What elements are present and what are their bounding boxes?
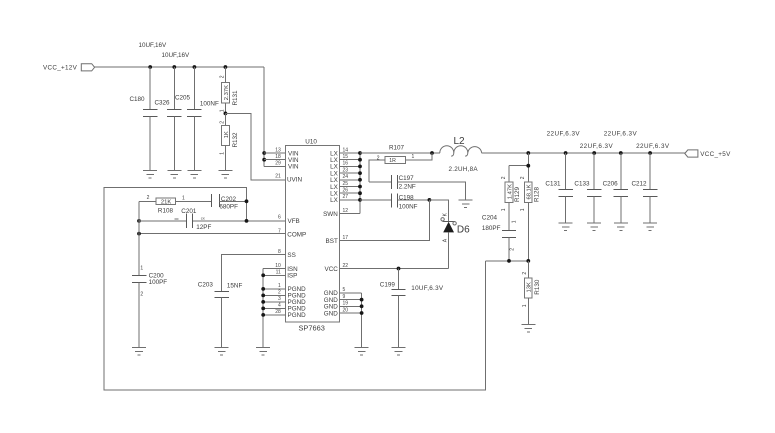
svg-text:COMP: COMP <box>287 231 306 238</box>
node C198-BST junction <box>428 198 432 202</box>
svg-text:GND: GND <box>324 310 338 317</box>
svg-text:1: 1 <box>522 304 528 307</box>
svg-text:2.2NF: 2.2NF <box>399 184 416 191</box>
svg-text:R132: R132 <box>232 132 239 148</box>
svg-text:2: 2 <box>147 195 150 201</box>
svg-text:R130: R130 <box>534 279 541 295</box>
svg-text:C212: C212 <box>632 181 648 188</box>
ground C326 <box>167 171 181 179</box>
svg-text:20: 20 <box>343 307 349 313</box>
svg-text:9: 9 <box>343 294 346 300</box>
svg-text:C198: C198 <box>399 194 415 201</box>
pin LX 26 <box>330 188 348 198</box>
node C204 bottom junction <box>507 259 511 263</box>
svg-text:6: 6 <box>278 215 281 221</box>
wire VFB pin <box>193 220 286 222</box>
svg-text:C133: C133 <box>574 181 590 188</box>
svg-text:VCC: VCC <box>325 266 339 273</box>
pin SS 8 <box>278 249 296 259</box>
pin VFB 6 <box>278 215 300 226</box>
node rail-divider junction <box>526 151 530 155</box>
svg-text:C197: C197 <box>399 175 415 182</box>
capacitor C131 <box>545 153 572 223</box>
pin GND 9 <box>324 294 346 304</box>
pin PGND 2 <box>278 290 306 300</box>
pin VIN 29 <box>275 161 299 171</box>
svg-text:1: 1 <box>182 195 185 201</box>
svg-text:2: 2 <box>140 292 143 298</box>
svg-text:1R: 1R <box>389 158 396 164</box>
port VCC_+5V <box>685 150 731 158</box>
svg-text:2.2UH,8A: 2.2UH,8A <box>449 166 479 173</box>
ground C205 <box>187 171 201 179</box>
wire feedback loop <box>104 187 485 390</box>
pin GND 20 <box>324 307 348 317</box>
svg-text:1K: 1K <box>224 131 230 138</box>
pin LX 24 <box>330 174 348 184</box>
capacitor C326 <box>155 67 182 171</box>
capacitor C212 <box>632 153 658 223</box>
pin ISP 11 <box>276 270 298 280</box>
pin LX 15 <box>330 154 348 164</box>
svg-text:1: 1 <box>278 283 281 289</box>
svg-text:21K: 21K <box>161 200 171 206</box>
svg-text:12: 12 <box>343 208 349 214</box>
svg-text:11: 11 <box>276 270 281 276</box>
node rail-C326 <box>172 65 176 69</box>
pin ISN 10 <box>275 263 298 273</box>
svg-text:68.1K: 68.1K <box>527 184 533 199</box>
wire LX stubs and bus <box>340 153 360 214</box>
wire R108 branch vertical <box>138 201 140 275</box>
node VCC-C199 junction <box>397 267 401 271</box>
node VFB-loop junction <box>245 219 249 223</box>
node VIN pin18 <box>262 158 266 162</box>
wire VCC pin <box>340 268 449 270</box>
svg-text:100NF: 100NF <box>399 203 418 210</box>
node rail-C206 <box>619 151 623 155</box>
svg-text:C205: C205 <box>175 94 191 101</box>
resistor R128 68.1K <box>520 176 540 261</box>
ground C203 <box>215 348 229 356</box>
ground R132 <box>218 170 232 178</box>
svg-text:22UF,6.3V: 22UF,6.3V <box>580 143 614 150</box>
wire PGND stubs <box>263 289 285 315</box>
ground PGND <box>256 348 270 356</box>
capacitor C199 10UF,6.3V <box>380 269 444 348</box>
svg-text:1: 1 <box>412 154 415 160</box>
capacitor C133 <box>574 153 601 223</box>
pin BST 17 <box>326 235 349 245</box>
svg-text:28: 28 <box>275 309 281 315</box>
pin LX 23 <box>330 167 348 177</box>
pin PGND 28 <box>275 309 306 319</box>
svg-text:C204: C204 <box>482 215 498 222</box>
resistor R131 2.37K <box>219 67 239 113</box>
pin GND 19 <box>324 301 348 311</box>
svg-text:2: 2 <box>522 272 528 275</box>
node VIN pin13 <box>262 151 266 155</box>
svg-text:8: 8 <box>278 249 281 255</box>
svg-text:2: 2 <box>520 176 526 179</box>
svg-text:2: 2 <box>219 121 225 124</box>
svg-text:100PF: 100PF <box>149 279 168 286</box>
svg-text:13K: 13K <box>527 282 533 292</box>
svg-text:C180: C180 <box>130 96 146 103</box>
wire SS pin <box>222 255 286 292</box>
wire UVIN feed <box>225 113 285 180</box>
pin PGND 3 <box>278 296 306 306</box>
wire divider feed <box>509 153 528 182</box>
capacitor C206 <box>603 153 628 223</box>
node rail-R131 <box>224 65 228 69</box>
wire LX to L2 <box>360 152 440 154</box>
svg-text:10UF,6.3V: 10UF,6.3V <box>411 285 444 292</box>
node VFB-C201 junction <box>137 219 141 223</box>
pin PGND 1 <box>278 283 306 293</box>
wire ISN ISP tie <box>263 269 285 348</box>
svg-text:1: 1 <box>512 220 518 223</box>
svg-text:C326: C326 <box>155 100 171 107</box>
svg-text:VCC_+5V: VCC_+5V <box>700 151 731 158</box>
pin PGND 4 <box>278 303 306 313</box>
svg-text:10UF,16V: 10UF,16V <box>139 42 167 49</box>
wire VIN feed <box>263 67 265 166</box>
capacitor C197 2.2NF <box>369 175 466 200</box>
ground C131 <box>559 223 573 231</box>
ground C212 <box>643 223 657 231</box>
ground C180 <box>143 171 157 179</box>
svg-text:15: 15 <box>343 154 349 160</box>
capacitor C202 680PF <box>212 194 247 210</box>
node C202-loop junction <box>245 199 249 203</box>
ground C200 <box>132 348 146 356</box>
svg-text:24: 24 <box>343 174 349 180</box>
op-amp U1 : IC U10 SP7663 body <box>285 138 339 332</box>
capacitor C205 100NF <box>175 67 219 171</box>
svg-text:R131: R131 <box>232 90 239 106</box>
wire GND stubs and bus <box>340 293 362 348</box>
ground R130 <box>521 325 535 333</box>
wire +12V rail <box>95 66 265 68</box>
svg-text:1: 1 <box>219 152 225 155</box>
node LX bus junctions <box>358 151 362 202</box>
svg-text:D6: D6 <box>457 225 470 236</box>
node rail-C205 <box>193 65 197 69</box>
diode D6 schottky <box>441 212 470 268</box>
svg-text:SS: SS <box>287 252 295 259</box>
resistor R132 1K <box>219 113 239 170</box>
svg-text:R129: R129 <box>514 186 521 202</box>
svg-text:26: 26 <box>343 188 349 194</box>
node rail-C131 <box>564 151 568 155</box>
svg-text:12PF: 12PF <box>196 224 211 231</box>
svg-text:C199: C199 <box>380 282 396 289</box>
wire +5V rail <box>482 152 685 154</box>
capacitor C180 <box>130 67 158 171</box>
pin UVIN 21 <box>275 174 302 184</box>
svg-text:13: 13 <box>275 147 281 153</box>
svg-text:29: 29 <box>275 161 281 167</box>
svg-text:C206: C206 <box>603 181 619 188</box>
svg-text:100NF: 100NF <box>200 101 219 108</box>
svg-text:L2: L2 <box>454 136 466 147</box>
ground C206 <box>614 223 628 231</box>
resistor R130 13K <box>522 261 541 325</box>
svg-text:BST: BST <box>326 238 338 245</box>
pin SWN 12 <box>323 208 348 218</box>
svg-text:C203: C203 <box>198 282 214 289</box>
svg-text:2: 2 <box>510 248 516 251</box>
svg-text:cx: cx <box>201 215 205 220</box>
pin LX 16 <box>330 161 348 171</box>
svg-text:5: 5 <box>343 287 346 293</box>
svg-text:3: 3 <box>278 296 281 302</box>
svg-text:C131: C131 <box>545 181 561 188</box>
wire BST pin <box>340 200 430 241</box>
pin COMP 7 <box>278 228 306 238</box>
svg-text:23: 23 <box>343 167 349 173</box>
ground GND bus <box>355 348 369 356</box>
wire feedback node row <box>485 260 528 262</box>
svg-text:VCC_+12V: VCC_+12V <box>43 65 78 72</box>
node COMP junction <box>137 232 141 236</box>
svg-text:10: 10 <box>275 263 281 269</box>
node divider top junction <box>526 164 530 168</box>
ground C133 <box>587 223 601 231</box>
svg-text:R128: R128 <box>533 186 540 202</box>
svg-text:22UF,6.3V: 22UF,6.3V <box>636 143 670 150</box>
svg-text:SWN: SWN <box>323 211 338 218</box>
pin LX 25 <box>330 181 348 191</box>
svg-text:4: 4 <box>278 303 281 309</box>
wire COMP pin <box>139 233 285 235</box>
node PGND junctions <box>261 287 265 317</box>
svg-text:19: 19 <box>343 301 349 307</box>
port VCC_+12V <box>43 64 95 72</box>
node rail-C180 <box>148 65 152 69</box>
ground C199 <box>392 348 406 356</box>
svg-text:PGND: PGND <box>288 312 307 319</box>
pin VCC 22 <box>325 263 349 273</box>
svg-text:2: 2 <box>278 290 281 296</box>
svg-text:2: 2 <box>219 75 225 78</box>
svg-text:16: 16 <box>343 161 349 167</box>
resistor R108 21K <box>139 195 212 214</box>
svg-text:10UF,16V: 10UF,16V <box>162 52 190 59</box>
capacitor C198 100NF <box>360 193 429 210</box>
resistor R129 1.47K <box>501 176 521 230</box>
pin VIN 13 <box>275 147 299 157</box>
svg-text:180PF: 180PF <box>482 225 501 232</box>
svg-text:R107: R107 <box>389 144 405 151</box>
capacitor C203 15NF <box>198 282 243 348</box>
resistor R107 1R <box>369 144 432 182</box>
svg-text:2.37K: 2.37K <box>224 85 230 100</box>
svg-text:22UF,6.3V: 22UF,6.3V <box>547 131 581 138</box>
svg-text:14: 14 <box>343 147 349 153</box>
svg-text:C202: C202 <box>221 196 237 203</box>
svg-text:22: 22 <box>343 263 349 269</box>
svg-text:1.47K: 1.47K <box>507 184 513 199</box>
svg-text:680PF: 680PF <box>219 203 238 210</box>
capacitor C204 180PF <box>482 215 518 261</box>
inductor L2 2.2UH,8A <box>440 136 482 173</box>
svg-text:25: 25 <box>343 181 349 187</box>
svg-text:U10: U10 <box>305 138 317 145</box>
pin LX 14 <box>330 147 348 157</box>
svg-text:ISP: ISP <box>287 273 297 280</box>
wire VIN stubs <box>264 153 285 166</box>
node rail-C212 <box>648 151 652 155</box>
svg-text:VIN: VIN <box>288 164 299 171</box>
capacitor C200 100PF <box>132 265 167 347</box>
svg-text:18: 18 <box>275 154 281 160</box>
node ISP junction <box>261 273 265 277</box>
node R128 bottom junction <box>526 259 530 263</box>
svg-text:UVIN: UVIN <box>287 177 302 184</box>
svg-text:22UF,6.3V: 22UF,6.3V <box>604 131 638 138</box>
svg-text:1: 1 <box>501 208 507 211</box>
wire C198 to D6 cathode <box>429 200 448 221</box>
ground C197 <box>459 200 473 208</box>
svg-text:15NF: 15NF <box>227 283 243 290</box>
svg-text:VFB: VFB <box>288 218 300 225</box>
svg-text:SP7663: SP7663 <box>299 324 325 333</box>
node R107-L2 junction <box>430 151 434 155</box>
svg-text:27: 27 <box>343 194 349 200</box>
svg-text:17: 17 <box>343 235 349 241</box>
capacitor C201 12PF <box>139 208 212 231</box>
node rail-C133 <box>592 151 596 155</box>
pin LX 27 <box>330 194 348 204</box>
svg-text:1: 1 <box>140 265 143 271</box>
node GND bus junctions <box>360 298 364 315</box>
svg-text:LX: LX <box>330 197 339 204</box>
svg-text:2: 2 <box>501 176 507 179</box>
svg-text:R108: R108 <box>158 207 174 214</box>
pin GND 5 <box>324 287 346 297</box>
svg-text:1: 1 <box>520 208 526 211</box>
svg-text:C201: C201 <box>181 208 197 215</box>
svg-text:21: 21 <box>275 174 281 180</box>
pin VIN 18 <box>275 154 299 164</box>
node R131-R132 junction <box>224 112 228 116</box>
